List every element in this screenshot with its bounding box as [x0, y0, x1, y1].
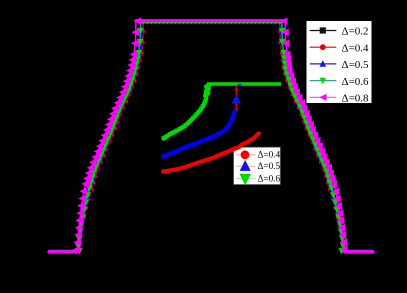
Delta=0.4 main curve — [49, 22, 373, 250]
Delta=0.5 main curve — [49, 22, 373, 250]
blue mark at jump point on green plateau — [238, 84, 242, 87]
main legend entry Delta=0.6 — [310, 76, 369, 88]
svg-text:Δ=0.4: Δ=0.4 — [342, 42, 370, 54]
main legend entry Delta=0.8 — [310, 93, 369, 105]
inner curve Delta=0.4 (red) — [161, 132, 260, 174]
svg-text:Δ=0.6: Δ=0.6 — [342, 76, 370, 88]
main legend entry Delta=0.4 — [310, 42, 369, 54]
svg-text:Δ=0.4: Δ=0.4 — [258, 150, 281, 160]
main legend box — [306, 21, 372, 104]
svg-text:Δ=0.2: Δ=0.2 — [342, 26, 369, 38]
svg-text:Δ=0.8: Δ=0.8 — [342, 93, 370, 105]
svg-text:Δ=0.6: Δ=0.6 — [258, 173, 281, 183]
inner curve Delta=0.6 (green) rising part — [161, 83, 211, 141]
main legend entry Delta=0.5 — [310, 59, 369, 71]
Delta=0.8 main curve — [49, 17, 373, 253]
inset legend entry Delta=0.4 — [236, 150, 281, 160]
main legend entry Delta=0.2 — [310, 26, 369, 38]
inset legend entry Delta=0.6 — [236, 173, 281, 185]
inset legend entry Delta=0.5 — [236, 160, 281, 171]
Delta=0.6 main curve — [49, 20, 373, 255]
svg-text:Δ=0.5: Δ=0.5 — [258, 161, 281, 171]
inner curve Delta=0.6 (green) plateau — [207, 82, 281, 85]
svg-text:Δ=0.5: Δ=0.5 — [342, 59, 370, 71]
inner curve Delta=0.5 (blue) — [161, 107, 239, 158]
first-order jump line (red) with blue triangle marker — [232, 86, 242, 111]
inset legend box — [234, 147, 281, 184]
